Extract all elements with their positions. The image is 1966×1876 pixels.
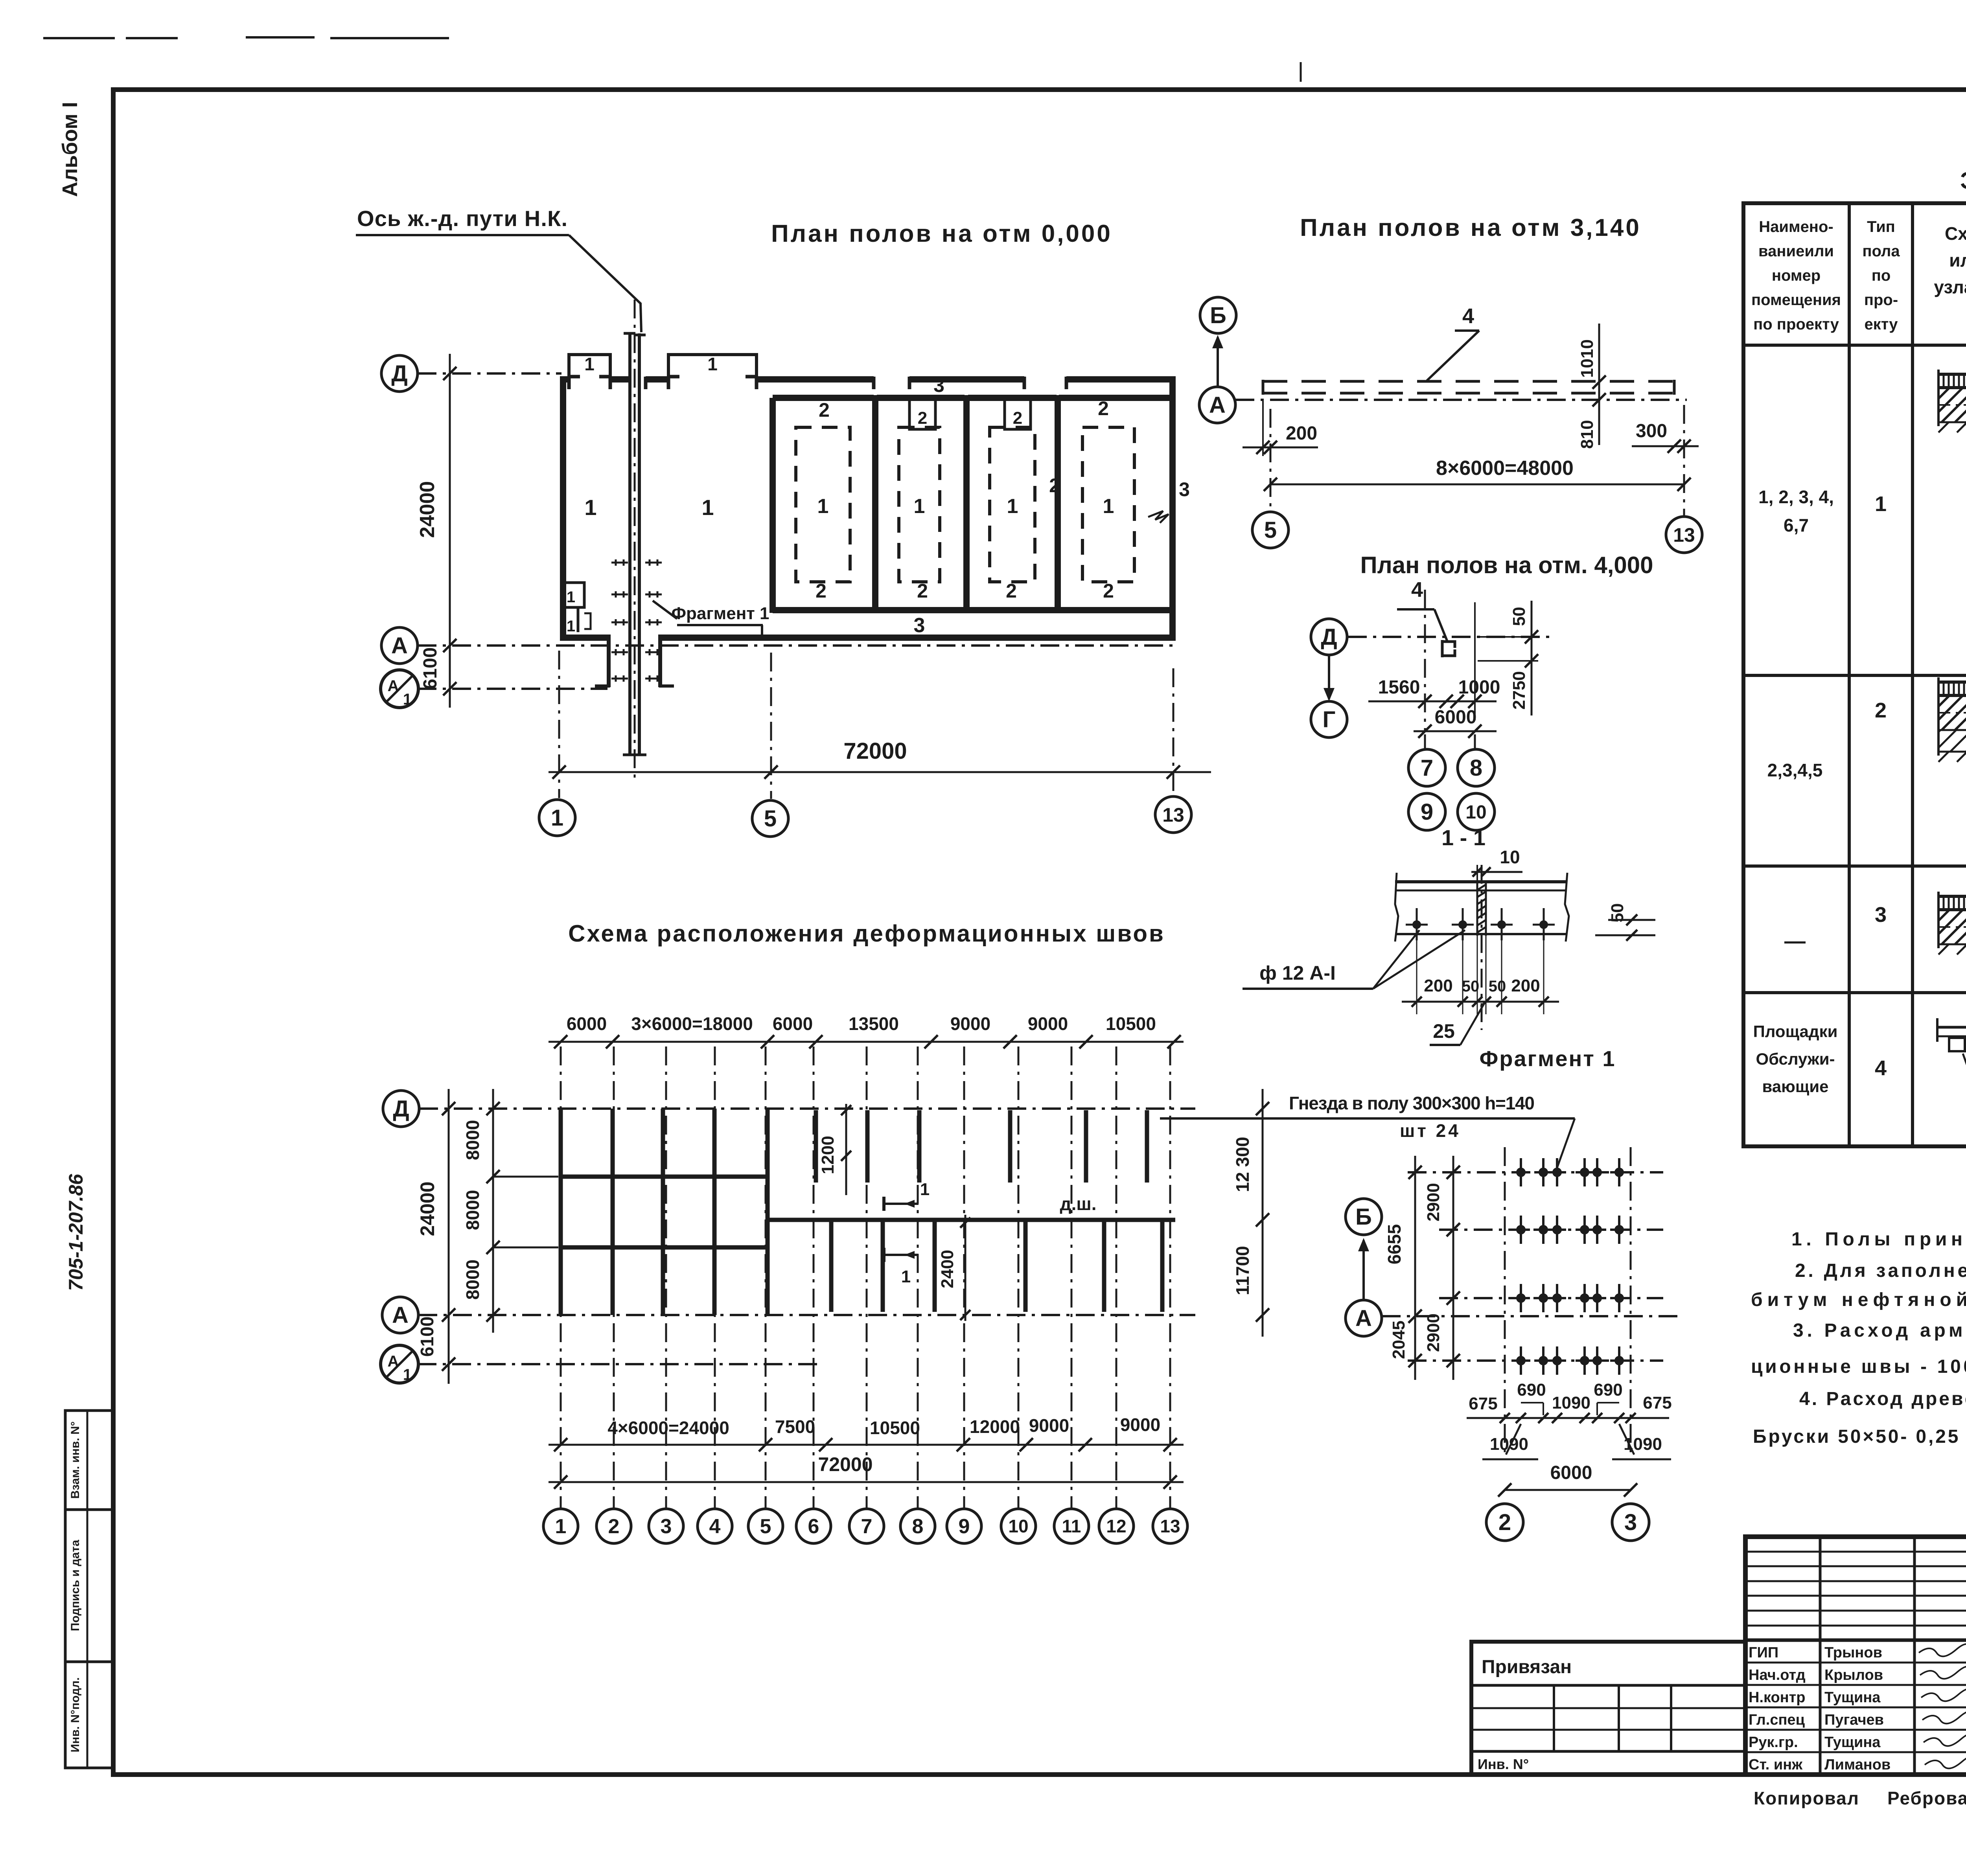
railway rails: [628, 333, 631, 755]
view arrow plan3: [1328, 656, 1330, 699]
svg-text:1, 2, 3, 4,: 1, 2, 3, 4,: [1758, 487, 1834, 507]
svg-text:Площадки: Площадки: [1753, 1022, 1838, 1041]
svg-text:—: —: [1784, 929, 1806, 953]
svg-text:10500: 10500: [870, 1418, 920, 1438]
svg-text:4: 4: [1411, 578, 1423, 601]
svg-text:Альбом I: Альбом I: [58, 102, 82, 197]
svg-text:12000: 12000: [970, 1416, 1020, 1437]
svg-text:200: 200: [1424, 976, 1452, 995]
svg-text:2: 2: [1013, 408, 1022, 428]
axis circle A fragment: [1346, 1300, 1382, 1336]
vertical dim line 24000/6100: [449, 354, 451, 708]
axis circle A plan1: [381, 627, 418, 664]
scheme upper joint stubs: [814, 1110, 818, 1183]
plan3 axis 8 line: [1474, 602, 1476, 720]
plan1 dashed pallet 3: [990, 427, 1035, 582]
svg-text:ГИП: ГИП: [1749, 1644, 1778, 1661]
section joint axis line: [1481, 865, 1483, 1030]
svg-text:номер: номер: [1772, 267, 1821, 284]
svg-text:24000: 24000: [416, 1181, 438, 1236]
scheme lower joint stubs: [829, 1219, 834, 1312]
scheme bottom dim 72000: [549, 1481, 1184, 1483]
plan3 small platform dashed: [1442, 642, 1455, 648]
table column lines: [1848, 203, 1851, 1146]
svg-text:1000: 1000: [1458, 677, 1500, 698]
scheme 8000 stub lines: [493, 1176, 558, 1178]
svg-text:4: 4: [1462, 304, 1474, 328]
table row1 schema: [1938, 373, 1966, 376]
railway fastener marks: [611, 559, 620, 566]
axis circle A1 plan1: [381, 670, 418, 708]
plan1 bottom dim 72000: [549, 771, 1211, 773]
svg-text:Крылов: Крылов: [1824, 1667, 1883, 1683]
svg-text:1200: 1200: [818, 1136, 838, 1174]
svg-text:1: 1: [914, 495, 925, 518]
table row2 schema: [1938, 681, 1966, 684]
svg-text:шт 24: шт 24: [1400, 1120, 1461, 1141]
svg-text:ваниеили: ваниеили: [1758, 243, 1834, 260]
svg-text:3: 3: [1875, 903, 1887, 927]
title block signature rows: [1745, 1662, 1966, 1664]
svg-text:2,3,4,5: 2,3,4,5: [1767, 760, 1823, 780]
svg-text:Схема расположения деформацион: Схема расположения деформационных швов: [568, 920, 1165, 947]
svg-text:Нач.отд: Нач.отд: [1749, 1667, 1806, 1683]
left stamp box Подпись и дата: [65, 1510, 113, 1662]
svg-text:План полов на отм 3,140: План полов на отм 3,140: [1300, 214, 1641, 241]
svg-text:5: 5: [764, 806, 777, 831]
svg-text:по: по: [1872, 267, 1891, 284]
section right dim 50: [1595, 934, 1655, 936]
svg-text:1: 1: [403, 1366, 412, 1383]
svg-text:9000: 9000: [1029, 1415, 1069, 1436]
svg-text:про-: про-: [1864, 291, 1898, 309]
svg-text:1: 1: [817, 495, 829, 518]
svg-text:Тущина: Тущина: [1824, 1734, 1881, 1751]
svg-text:Обслужи-: Обслужи-: [1756, 1050, 1835, 1068]
svg-text:1: 1: [901, 1267, 911, 1286]
svg-text:Фрагмент 1: Фрагмент 1: [671, 604, 769, 623]
svg-text:пола: пола: [1862, 243, 1900, 260]
svg-text:узла по серии: узла по серии: [1934, 277, 1966, 297]
section bottom dims: [1402, 1001, 1559, 1003]
plan1 small detail boxes: [561, 583, 584, 607]
svg-text:10: 10: [1500, 847, 1520, 867]
svg-text:675: 675: [1643, 1393, 1671, 1413]
title block upper small rows: [1745, 1551, 1966, 1553]
svg-text:Д: Д: [393, 1096, 409, 1122]
svg-text:12: 12: [1106, 1516, 1126, 1536]
plan3 circle stems: [1424, 734, 1426, 749]
scheme section mark 1 upper: [884, 1203, 919, 1205]
svg-text:1: 1: [707, 354, 718, 374]
svg-text:12 300: 12 300: [1232, 1137, 1253, 1192]
plan1 dashed pallet 1: [796, 427, 850, 582]
scheme bottom axis circles: [543, 1509, 578, 1543]
axis circle 5 plan1: [752, 800, 788, 837]
plan2 dim 200: [1243, 447, 1318, 449]
scheme vertical axis lines: [560, 1047, 562, 1508]
svg-text:Инв. N°подл.: Инв. N°подл.: [69, 1677, 82, 1753]
svg-text:А: А: [392, 1302, 409, 1328]
plan1 top notch 1: [909, 399, 935, 429]
scheme left dim 24000/6100: [448, 1089, 450, 1384]
svg-text:Фрагмент 1: Фрагмент 1: [1480, 1046, 1616, 1071]
svg-text:7500: 7500: [775, 1416, 815, 1437]
svg-text:2: 2: [1006, 580, 1017, 602]
svg-text:Взам. инв. N°: Взам. инв. N°: [69, 1421, 82, 1499]
section slab bottom: [1395, 933, 1567, 935]
svg-text:помещения: помещения: [1751, 291, 1841, 309]
svg-text:3: 3: [933, 374, 944, 396]
svg-text:Привязан: Привязан: [1482, 1657, 1572, 1677]
svg-text:11700: 11700: [1232, 1246, 1253, 1295]
scheme section mark 1 lower: [884, 1254, 919, 1256]
svg-text:1: 1: [567, 618, 575, 635]
svg-text:6100: 6100: [420, 647, 441, 690]
svg-text:2: 2: [1103, 580, 1114, 602]
axis line D plan1: [418, 372, 561, 375]
svg-text:1090: 1090: [1490, 1435, 1528, 1454]
fragment dim 6000: [1505, 1489, 1631, 1491]
axis circle D plan3: [1311, 619, 1347, 655]
svg-text:Экспликация полов: Экспликация полов: [1960, 167, 1966, 194]
svg-text:8×6000=48000: 8×6000=48000: [1436, 457, 1574, 480]
svg-text:1: 1: [920, 1180, 930, 1199]
axis circle 5 plan2: [1252, 512, 1289, 548]
svg-text:План полов на отм 0,000: План полов на отм 0,000: [771, 220, 1112, 247]
scheme axis A1 line: [418, 1363, 818, 1365]
svg-text:А: А: [388, 677, 399, 695]
axis circle A plan2: [1199, 387, 1235, 423]
svg-text:6,7: 6,7: [1784, 515, 1809, 535]
svg-text:2. Для заполнения деформационн: 2. Для заполнения деформационных швов в …: [1795, 1260, 1966, 1281]
svg-text:300: 300: [1636, 421, 1667, 441]
table row4 schema board: [1937, 1026, 1966, 1029]
svg-text:Б: Б: [1210, 303, 1226, 328]
plan1 storage box walls: [769, 398, 776, 613]
svg-text:1: 1: [555, 1515, 567, 1538]
svg-text:1: 1: [584, 354, 595, 374]
plan2 dim 300: [1632, 445, 1699, 447]
svg-text:ционные швы - 1000кг.: ционные швы - 1000кг.: [1751, 1356, 1966, 1377]
svg-text:1: 1: [701, 495, 714, 520]
scheme left dim 8000s: [492, 1089, 494, 1333]
svg-text:Лиманов: Лиманов: [1824, 1756, 1891, 1773]
axis circle B fragment: [1346, 1199, 1382, 1235]
svg-text:50: 50: [1462, 978, 1480, 995]
svg-text:2: 2: [608, 1515, 620, 1538]
plan1 railway pit walls: [607, 635, 611, 687]
plan1 door jamb ticks: [567, 377, 571, 389]
svg-text:3: 3: [1179, 478, 1190, 500]
svg-text:13: 13: [1162, 804, 1184, 826]
svg-text:8: 8: [912, 1515, 924, 1538]
plan3 dim 6000: [1414, 730, 1497, 732]
svg-text:6100: 6100: [417, 1317, 437, 1357]
plan1 dashed pallet 4: [1082, 427, 1134, 582]
svg-text:5: 5: [760, 1515, 771, 1538]
svg-text:10: 10: [1008, 1516, 1028, 1536]
svg-text:2045: 2045: [1389, 1321, 1408, 1359]
plan1 door bump 2: [668, 355, 757, 379]
svg-text:А: А: [1209, 392, 1226, 418]
svg-text:1: 1: [551, 805, 563, 831]
svg-text:4×6000=24000: 4×6000=24000: [607, 1418, 729, 1438]
plan1 top notch 2: [1005, 399, 1031, 429]
axis circle 2 fragment: [1486, 1504, 1523, 1541]
svg-text:Г: Г: [1323, 707, 1336, 732]
svg-text:8: 8: [1470, 755, 1482, 781]
svg-text:Д: Д: [1321, 624, 1337, 650]
axis circle A1 scheme: [381, 1345, 418, 1383]
svg-text:1. Полы приняты по СНиП II-В.8: 1. Полы приняты по СНиП II-В.8-71.: [1791, 1229, 1966, 1250]
svg-text:Тип: Тип: [1867, 218, 1895, 235]
svg-text:8000: 8000: [462, 1120, 483, 1160]
svg-text:екту: екту: [1864, 316, 1898, 333]
axis circle 8: [1458, 749, 1495, 786]
title block signature columns: [1819, 1537, 1822, 1775]
svg-text:810: 810: [1578, 420, 1597, 449]
svg-text:Схема пола: Схема пола: [1945, 223, 1966, 244]
svg-text:Наимено-: Наимено-: [1759, 218, 1833, 235]
scheme long joint line: [768, 1218, 1175, 1222]
section anchors: [1416, 908, 1418, 940]
top-center fold tick: [1300, 62, 1302, 82]
axis circle D plan1: [381, 355, 418, 392]
plan1 box bottom wall: [773, 607, 1173, 613]
svg-text:ф 12 А-I: ф 12 А-I: [1259, 962, 1336, 984]
svg-text:Пугачев: Пугачев: [1824, 1712, 1884, 1728]
svg-text:9: 9: [1421, 799, 1433, 825]
axis circle 13 plan1: [1155, 796, 1191, 833]
table outer border: [1743, 203, 1966, 1146]
axis circle 1 plan1: [539, 800, 575, 836]
svg-text:1: 1: [403, 691, 412, 708]
plan3 axis 7 line: [1424, 590, 1426, 732]
svg-text:Трынов: Трынов: [1824, 1644, 1882, 1661]
plan3 right dim 50/2750: [1531, 601, 1533, 715]
svg-text:8000: 8000: [462, 1260, 483, 1300]
svg-text:Ст. инж: Ст. инж: [1749, 1756, 1803, 1773]
plan1 right wall: [1169, 377, 1176, 640]
svg-text:25: 25: [1433, 1020, 1455, 1042]
svg-text:2750: 2750: [1509, 671, 1529, 710]
svg-text:24000: 24000: [416, 481, 439, 538]
svg-text:Тущина: Тущина: [1824, 1689, 1881, 1706]
fragment bottom dim line: [1467, 1417, 1669, 1419]
svg-text:А: А: [391, 633, 408, 658]
plan2 right dim 1010/810: [1598, 324, 1600, 445]
svg-text:7: 7: [1421, 755, 1433, 781]
svg-text:Рук.гр.: Рук.гр.: [1749, 1734, 1798, 1751]
plan2 dim 48000: [1270, 484, 1684, 486]
svg-text:План полов на отм. 4,000: План полов на отм. 4,000: [1360, 552, 1653, 578]
svg-text:9: 9: [959, 1515, 970, 1538]
svg-text:2: 2: [1498, 1510, 1511, 1535]
svg-text:11: 11: [1062, 1516, 1081, 1536]
fragment axis 3 line: [1630, 1147, 1632, 1455]
fragment dim 6655/2045: [1414, 1156, 1416, 1380]
svg-text:А: А: [388, 1353, 399, 1370]
svg-text:1090: 1090: [1552, 1393, 1590, 1413]
svg-text:705-1-207.86: 705-1-207.86: [65, 1173, 87, 1291]
svg-text:Реброва: Реброва: [1887, 1788, 1966, 1808]
axis line A1 plan1: [418, 688, 607, 690]
svg-text:Ось ж.-д. пути Н.К.: Ось ж.-д. пути Н.К.: [357, 206, 567, 231]
svg-text:6: 6: [808, 1515, 819, 1538]
svg-text:3×6000=18000: 3×6000=18000: [631, 1013, 753, 1034]
privyazan box: [1471, 1642, 1745, 1775]
svg-text:10500: 10500: [1106, 1013, 1156, 1034]
plan1 scribble mark: [1148, 511, 1169, 523]
svg-text:3: 3: [914, 614, 925, 637]
table row3 schema: [1938, 895, 1966, 898]
section slab top lines: [1395, 880, 1567, 883]
section joint strip: [1476, 882, 1478, 936]
plan3 dim 1560/1000: [1368, 701, 1497, 703]
railway axis: [634, 300, 636, 780]
scheme bottom dim row 1: [549, 1444, 1184, 1446]
fragment row lines: [1408, 1171, 1663, 1173]
plan1 dim extension lines: [558, 651, 560, 798]
view arrow plan2: [1217, 337, 1219, 387]
axis circle 10: [1458, 793, 1495, 830]
axis circle 9: [1408, 793, 1445, 830]
svg-text:2: 2: [918, 408, 927, 428]
svg-text:Подпись и дата: Подпись и дата: [69, 1539, 82, 1631]
svg-text:1: 1: [1875, 492, 1887, 516]
fragment dim 2900s: [1452, 1156, 1454, 1380]
axis circle G plan3: [1311, 701, 1347, 738]
plan1 box top walls: [773, 395, 874, 401]
plan1 bump corner ticks: [569, 375, 580, 379]
axis circle B plan2: [1200, 297, 1236, 333]
fragment view arrow: [1362, 1240, 1365, 1300]
plan3 axis line D: [1348, 636, 1549, 638]
svg-text:13: 13: [1673, 524, 1695, 546]
svg-text:50: 50: [1489, 978, 1506, 995]
svg-text:2900: 2900: [1424, 1313, 1443, 1352]
svg-text:Инв. N°: Инв. N°: [1478, 1756, 1529, 1772]
svg-text:1: 1: [1007, 495, 1018, 518]
fragment axis 2 line: [1504, 1147, 1506, 1455]
svg-text:3: 3: [1624, 1510, 1637, 1535]
plan1 top wall: [560, 376, 569, 383]
top-left fold marks: [43, 37, 115, 39]
svg-text:А: А: [1355, 1306, 1372, 1331]
svg-text:2400: 2400: [938, 1250, 957, 1288]
nests leader: [1556, 1118, 1575, 1170]
svg-text:690: 690: [1594, 1380, 1622, 1400]
svg-text:50: 50: [1608, 903, 1627, 923]
svg-text:200: 200: [1286, 423, 1317, 444]
scheme left joint grid: [559, 1109, 563, 1315]
svg-text:4: 4: [709, 1515, 721, 1538]
svg-text:5: 5: [1264, 517, 1277, 543]
svg-text:50: 50: [1509, 607, 1529, 626]
plan1 dashed pallet 2: [899, 427, 940, 582]
svg-text:3: 3: [661, 1515, 672, 1538]
svg-text:1 - 1: 1 - 1: [1441, 825, 1486, 850]
axis circle 7: [1408, 749, 1445, 786]
svg-text:675: 675: [1469, 1394, 1497, 1413]
plan1 left wall: [560, 377, 566, 641]
svg-text:Б: Б: [1355, 1204, 1372, 1230]
svg-text:Гл.спец: Гл.спец: [1749, 1712, 1805, 1728]
plan2 dashed strip: [1263, 380, 1674, 383]
svg-text:200: 200: [1511, 976, 1540, 995]
svg-text:6000: 6000: [567, 1013, 607, 1034]
axis circle A scheme: [382, 1297, 418, 1333]
plan2 axis5 extension: [1270, 409, 1272, 511]
svg-text:9000: 9000: [950, 1013, 990, 1034]
fragment nest markers: [1512, 1158, 1530, 1186]
svg-text:Н.контр: Н.контр: [1749, 1689, 1806, 1706]
axis line A plan1: [418, 644, 1178, 647]
svg-text:7: 7: [861, 1515, 873, 1538]
svg-text:2: 2: [1875, 699, 1887, 722]
svg-text:10: 10: [1465, 802, 1486, 823]
svg-text:690: 690: [1517, 1380, 1546, 1400]
scheme top dim line: [549, 1041, 1184, 1043]
svg-text:9000: 9000: [1120, 1414, 1160, 1435]
svg-text:или номер: или номер: [1949, 250, 1966, 270]
svg-text:Д: Д: [391, 361, 407, 386]
plan1 bottom wall: [560, 635, 609, 641]
left stamp box Взам.инв.№: [65, 1411, 113, 1510]
svg-text:6000: 6000: [773, 1013, 813, 1034]
svg-text:2: 2: [1049, 475, 1060, 497]
svg-text:1: 1: [584, 495, 596, 520]
axis circle D scheme: [383, 1091, 419, 1127]
scheme right dim 12300/11700: [1262, 1089, 1264, 1337]
svg-text:1: 1: [567, 589, 575, 606]
section slab ends: [1395, 873, 1398, 942]
svg-text:1010: 1010: [1578, 339, 1597, 378]
plan1 door bump 1: [569, 355, 610, 379]
svg-text:13: 13: [1160, 1516, 1180, 1536]
plan2 axis line A: [1235, 399, 1687, 401]
svg-text:13500: 13500: [849, 1013, 899, 1034]
svg-text:6000: 6000: [1550, 1462, 1592, 1483]
svg-text:вающие: вающие: [1762, 1077, 1828, 1096]
leader to railway: [569, 235, 641, 332]
axis circle 3 fragment: [1612, 1504, 1649, 1541]
svg-text:1560: 1560: [1378, 677, 1420, 698]
scheme dim 2400: [965, 1215, 966, 1321]
scheme axis A line: [418, 1314, 1195, 1316]
svg-text:2: 2: [917, 580, 928, 602]
svg-text:Гнезда в полу 300×300 h=140: Гнезда в полу 300×300 h=140: [1289, 1093, 1535, 1113]
railway end bars: [624, 332, 635, 335]
svg-text:по проекту: по проекту: [1753, 316, 1839, 333]
svg-text:72000: 72000: [843, 738, 907, 764]
svg-text:д.ш.: д.ш.: [1060, 1194, 1096, 1214]
svg-text:Копировал: Копировал: [1754, 1788, 1859, 1808]
fragment1 label on plan: [653, 601, 677, 619]
svg-text:2900: 2900: [1424, 1183, 1443, 1221]
svg-text:9000: 9000: [1028, 1013, 1068, 1034]
svg-text:72000: 72000: [818, 1453, 873, 1475]
svg-text:8000: 8000: [462, 1190, 483, 1230]
left stamp box Инв.№ подл.: [65, 1662, 113, 1768]
scheme axis D line: [419, 1107, 1195, 1110]
svg-text:2: 2: [1098, 397, 1109, 419]
svg-text:6655: 6655: [1384, 1224, 1405, 1264]
svg-text:6000: 6000: [1435, 707, 1477, 728]
svg-text:1: 1: [1103, 495, 1114, 518]
axis circle 13 plan2: [1666, 517, 1702, 553]
